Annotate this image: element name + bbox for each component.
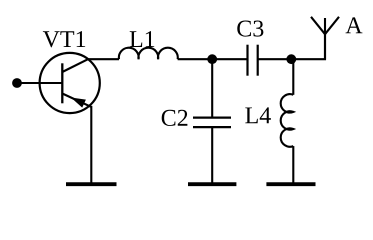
ground under C2 [188, 182, 236, 186]
node: junction of L1/C2/C3 [207, 54, 217, 64]
ground under L4 [266, 182, 315, 186]
ground under transistor emitter [66, 182, 117, 186]
capacitor C3 [248, 45, 258, 76]
wire: junction down to C2 [211, 59, 213, 117]
wire: C3 to antenna lead corner [258, 34, 325, 59]
input terminal node [12, 78, 22, 88]
label L1 [130, 31, 155, 47]
wire: emitter to ground [90, 106, 92, 183]
inductor L1 [119, 48, 178, 59]
label C2 [162, 110, 188, 126]
wire: junction down to L4 [292, 59, 294, 95]
label A [346, 17, 363, 33]
label C3 [237, 21, 263, 37]
inductor L4 [281, 94, 294, 147]
wire: input to base [17, 82, 62, 84]
label VT1 [43, 31, 85, 47]
label L4 [245, 107, 271, 123]
antenna A [311, 17, 339, 59]
capacitor C2 [193, 118, 231, 128]
wire: collector to L1 [87, 58, 119, 60]
wire: L4 to ground [292, 146, 294, 183]
wire: L1 to C3 [178, 58, 248, 60]
node: junction of C3/L4/antenna [286, 54, 296, 64]
wire: C2 to ground [211, 127, 213, 183]
transistor VT1 [40, 53, 100, 113]
